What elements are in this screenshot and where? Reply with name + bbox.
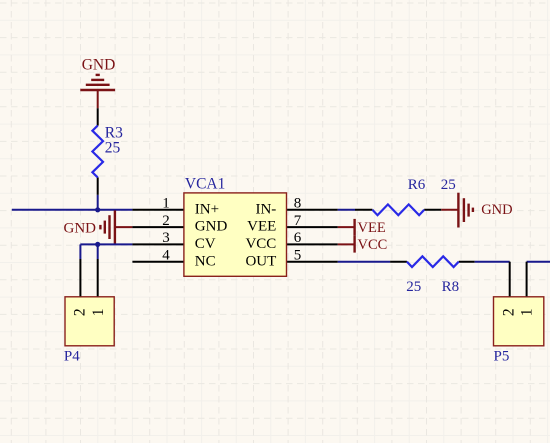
- svg-text:P4: P4: [64, 348, 80, 364]
- svg-text:P5: P5: [494, 348, 510, 364]
- svg-text:R6: R6: [408, 177, 426, 193]
- resistor R8: zigzag: [407, 256, 459, 267]
- svg-text:1: 1: [162, 196, 170, 212]
- wire: drop to P4 pin 1: [97, 244, 99, 259]
- svg-text:R8: R8: [442, 279, 460, 295]
- svg-text:GND: GND: [481, 202, 512, 218]
- ground GND left: stem to pin 2: [115, 226, 132, 228]
- connector P4 pin 2: [79, 259, 81, 296]
- svg-text:1: 1: [519, 309, 536, 317]
- svg-text:NC: NC: [195, 253, 216, 269]
- ground GND right: stem: [441, 209, 458, 211]
- power port VCC: stem: [338, 243, 355, 245]
- power port VCC: bar: [353, 236, 355, 253]
- wire: P5 pin 1 to right edge: [527, 261, 550, 263]
- pin 4 wire: [132, 261, 183, 263]
- svg-text:25: 25: [105, 139, 121, 156]
- svg-text:5: 5: [294, 248, 302, 264]
- svg-text:VCC: VCC: [245, 236, 276, 252]
- connector P5 body: [494, 297, 544, 346]
- svg-text:2: 2: [501, 308, 518, 316]
- pin 8 wire: [287, 209, 338, 211]
- power port VEE: stem: [338, 226, 355, 228]
- connector P5 pin 2: [509, 262, 511, 297]
- wire: R3 bottom to main horizontal net: [97, 195, 99, 210]
- svg-text:VEE: VEE: [358, 220, 386, 236]
- resistor R6: zigzag: [372, 204, 424, 215]
- resistor R8: pin stubs: [390, 261, 475, 263]
- svg-text:7: 7: [294, 213, 302, 229]
- wire: pin 5 to R8: [338, 261, 390, 263]
- pin 7 wire: [287, 226, 338, 228]
- pin 2 wire: [132, 226, 183, 228]
- junction dot at CV net / P4 pin 1: [95, 242, 100, 247]
- svg-text:VCC: VCC: [358, 237, 388, 253]
- svg-text:VEE: VEE: [247, 219, 276, 235]
- svg-text:1: 1: [90, 309, 107, 317]
- svg-text:8: 8: [294, 196, 302, 212]
- connector P5 pin 1: [526, 262, 528, 297]
- connector P4 pin 1: [97, 259, 99, 296]
- svg-text:2: 2: [162, 213, 170, 229]
- resistor R3: pin stubs: [97, 108, 99, 195]
- wire: R8 to P5 pin 2: [475, 261, 510, 263]
- resistor R3: zigzag: [92, 126, 103, 178]
- wire: main horizontal net into pin 1: [12, 209, 133, 211]
- svg-text:25: 25: [441, 177, 456, 193]
- svg-text:IN+: IN+: [195, 201, 219, 217]
- power port VEE: bar: [353, 219, 355, 236]
- ground GND top: symbol bars: [80, 75, 115, 90]
- ground GND left: symbol bars: [100, 210, 115, 244]
- pin 3 wire: [132, 243, 183, 245]
- junction dot at R3 / pin1 net: [95, 207, 100, 212]
- svg-text:3: 3: [162, 230, 170, 246]
- ground GND right: symbol bars: [458, 193, 473, 228]
- pin 1 wire: [132, 209, 183, 211]
- op-amp U1 (VCA1) body: [184, 193, 287, 276]
- svg-text:VCA1: VCA1: [185, 175, 225, 192]
- wire: CV net horizontal to pin 3: [80, 243, 132, 245]
- svg-text:IN-: IN-: [255, 201, 276, 217]
- wire: drop to P4 pin 2: [79, 244, 81, 259]
- svg-text:GND: GND: [195, 219, 228, 235]
- svg-text:4: 4: [162, 248, 170, 264]
- wire: pin 8 to R6: [338, 209, 355, 211]
- svg-text:GND: GND: [64, 221, 97, 237]
- svg-text:25: 25: [406, 279, 421, 295]
- svg-text:CV: CV: [195, 236, 216, 252]
- connector P4 body: [65, 297, 114, 346]
- svg-text:OUT: OUT: [245, 253, 276, 269]
- svg-text:GND: GND: [82, 57, 116, 74]
- pin 6 wire: [287, 243, 338, 245]
- svg-text:6: 6: [294, 230, 302, 246]
- svg-text:2: 2: [72, 308, 89, 316]
- resistor R6: pin stubs: [355, 209, 441, 211]
- ground GND top: stem: [97, 90, 99, 108]
- pin 5 wire: [287, 261, 338, 263]
